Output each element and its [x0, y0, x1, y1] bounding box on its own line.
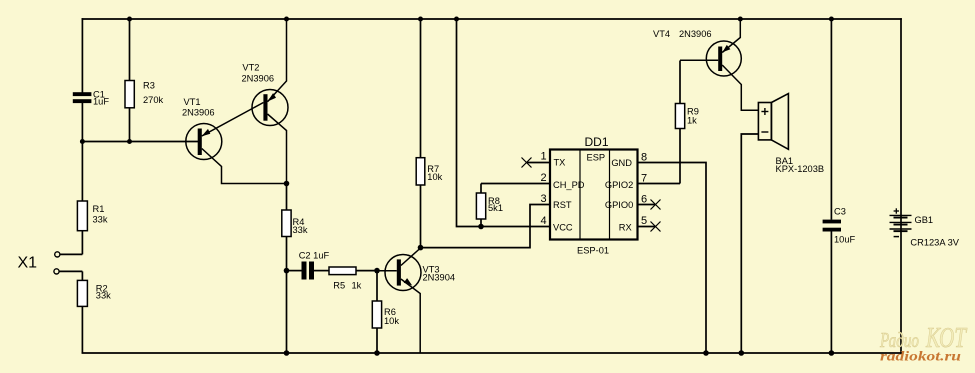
wire VT1 collector path — [202, 149, 287, 184]
resistor R2 — [59, 271, 111, 353]
watermark Radio KOT — [879, 322, 967, 354]
wire left rail upper — [81, 19, 83, 92]
wire RST path — [421, 205, 551, 248]
svg-text:GPIO2: GPIO2 — [605, 180, 633, 190]
wire speaker minus to ground — [741, 134, 758, 353]
svg-text:C2 1uF: C2 1uF — [299, 251, 330, 261]
wire left rail mid — [81, 103, 83, 201]
svg-text:4: 4 — [540, 215, 546, 227]
svg-text:5k1: 5k1 — [488, 203, 503, 213]
wire VT1 emitter to VT2 base — [202, 103, 264, 137]
svg-text:2N3906: 2N3906 — [679, 29, 712, 39]
wire R4 to ground — [286, 271, 288, 353]
svg-text:VT1: VT1 — [184, 97, 201, 107]
transistor VT1 — [182, 97, 222, 160]
node R3 bottom — [127, 139, 132, 144]
svg-text:10k: 10k — [384, 316, 399, 326]
node VT2 emitter top rail — [284, 17, 289, 22]
resistor R1 — [60, 201, 108, 254]
svg-text:2: 2 — [540, 172, 546, 184]
node R8 bottom — [478, 224, 484, 230]
battery GB1 — [890, 208, 960, 247]
transistor VT3 — [377, 255, 455, 291]
svg-text:2N3904: 2N3904 — [423, 273, 456, 283]
resistor R6 — [372, 271, 399, 353]
svg-text:TX: TX — [554, 158, 566, 168]
capacitor C3 — [823, 19, 856, 353]
node R7 top rail — [418, 17, 423, 22]
wire right rail — [900, 19, 902, 353]
node R6 ground — [374, 350, 380, 356]
pin 1 — [522, 151, 551, 168]
svg-text:DD1: DD1 — [585, 135, 609, 149]
transistor VT2 — [242, 63, 289, 126]
svg-text:2N3906: 2N3906 — [242, 73, 275, 83]
capacitor C2 — [287, 251, 330, 280]
wire top rail — [82, 18, 901, 20]
svg-text:1k: 1k — [687, 115, 697, 125]
node C3 ground — [829, 350, 835, 356]
pin 5 — [638, 215, 661, 231]
svg-text:R1: R1 — [93, 204, 105, 214]
wire GPIO2 to R9 — [638, 183, 681, 185]
resistor R4 — [282, 184, 308, 271]
svg-text:270k: 270k — [143, 95, 164, 105]
svg-text:33k: 33k — [293, 225, 308, 235]
resistor R3 — [125, 19, 164, 142]
resistor R7 — [416, 19, 442, 248]
svg-text:KPX-1203B: KPX-1203B — [776, 164, 825, 174]
wire bottom rail — [82, 352, 901, 354]
node ground R4 — [284, 350, 290, 356]
speaker BA1 — [758, 94, 824, 175]
wire VT4 collector to speaker plus — [722, 65, 758, 110]
node VCC top rail — [454, 17, 459, 22]
wire GND to ground rail — [638, 163, 707, 354]
svg-text:VT4: VT4 — [653, 29, 670, 39]
node speaker ground — [739, 350, 745, 356]
node VT3 base — [374, 268, 380, 274]
svg-text:10k: 10k — [427, 172, 442, 182]
svg-text:VT2: VT2 — [242, 63, 259, 73]
resistor R9 — [675, 61, 698, 184]
transistor VT4 — [653, 29, 741, 76]
svg-text:3: 3 — [540, 193, 546, 205]
wire CH_PD — [481, 183, 550, 185]
resistor R5 — [329, 267, 377, 290]
node RST collector junction — [418, 245, 424, 251]
wire VT4 emitter — [722, 19, 740, 53]
svg-text:X1: X1 — [18, 255, 38, 272]
svg-text:GPIO0: GPIO0 — [605, 200, 633, 210]
wire VT2 emitter up — [268, 19, 287, 102]
node R3 top — [127, 17, 132, 22]
svg-text:ESP-01: ESP-01 — [577, 245, 609, 255]
svg-text:10uF: 10uF — [834, 235, 856, 245]
svg-text:RX: RX — [619, 222, 632, 232]
svg-text:2N3906: 2N3906 — [182, 108, 215, 118]
svg-text:1uF: 1uF — [93, 96, 109, 106]
node C1 left rail — [80, 139, 85, 144]
node collectors R4 — [284, 181, 290, 187]
capacitor C1 — [73, 90, 110, 107]
svg-text:RST: RST — [553, 200, 572, 210]
svg-text:GB1: GB1 — [915, 215, 934, 225]
svg-text:ESP: ESP — [587, 153, 606, 163]
wire VT2 collector down — [268, 114, 287, 184]
wire VCC line — [457, 19, 551, 227]
svg-text:radiokot.ru: radiokot.ru — [880, 349, 962, 364]
pin 6 — [638, 194, 661, 210]
node GND ground — [703, 350, 709, 356]
svg-text:1k: 1k — [352, 280, 362, 290]
wire VT3 collector — [401, 248, 421, 266]
svg-text:CR123A 3V: CR123A 3V — [910, 238, 959, 248]
svg-text:R5: R5 — [333, 280, 345, 290]
node C2 tap — [284, 268, 290, 274]
node VT4 top rail — [738, 17, 743, 22]
wire VT1 base — [82, 141, 198, 143]
svg-text:33k: 33k — [96, 291, 111, 301]
IC DD1 ESP-01 — [550, 135, 638, 255]
svg-text:GND: GND — [611, 158, 632, 168]
connector X1 — [18, 252, 60, 274]
svg-text:C3: C3 — [834, 206, 846, 216]
resistor R8 — [476, 184, 503, 227]
svg-text:1: 1 — [540, 151, 546, 163]
node C3 top rail — [829, 17, 834, 22]
svg-text:R3: R3 — [143, 80, 155, 90]
wire VT3 emitter — [401, 278, 420, 353]
svg-text:33k: 33k — [93, 215, 108, 225]
svg-text:VCC: VCC — [553, 222, 573, 232]
svg-text:CH_PD: CH_PD — [553, 180, 585, 190]
svg-text:5: 5 — [641, 215, 647, 227]
